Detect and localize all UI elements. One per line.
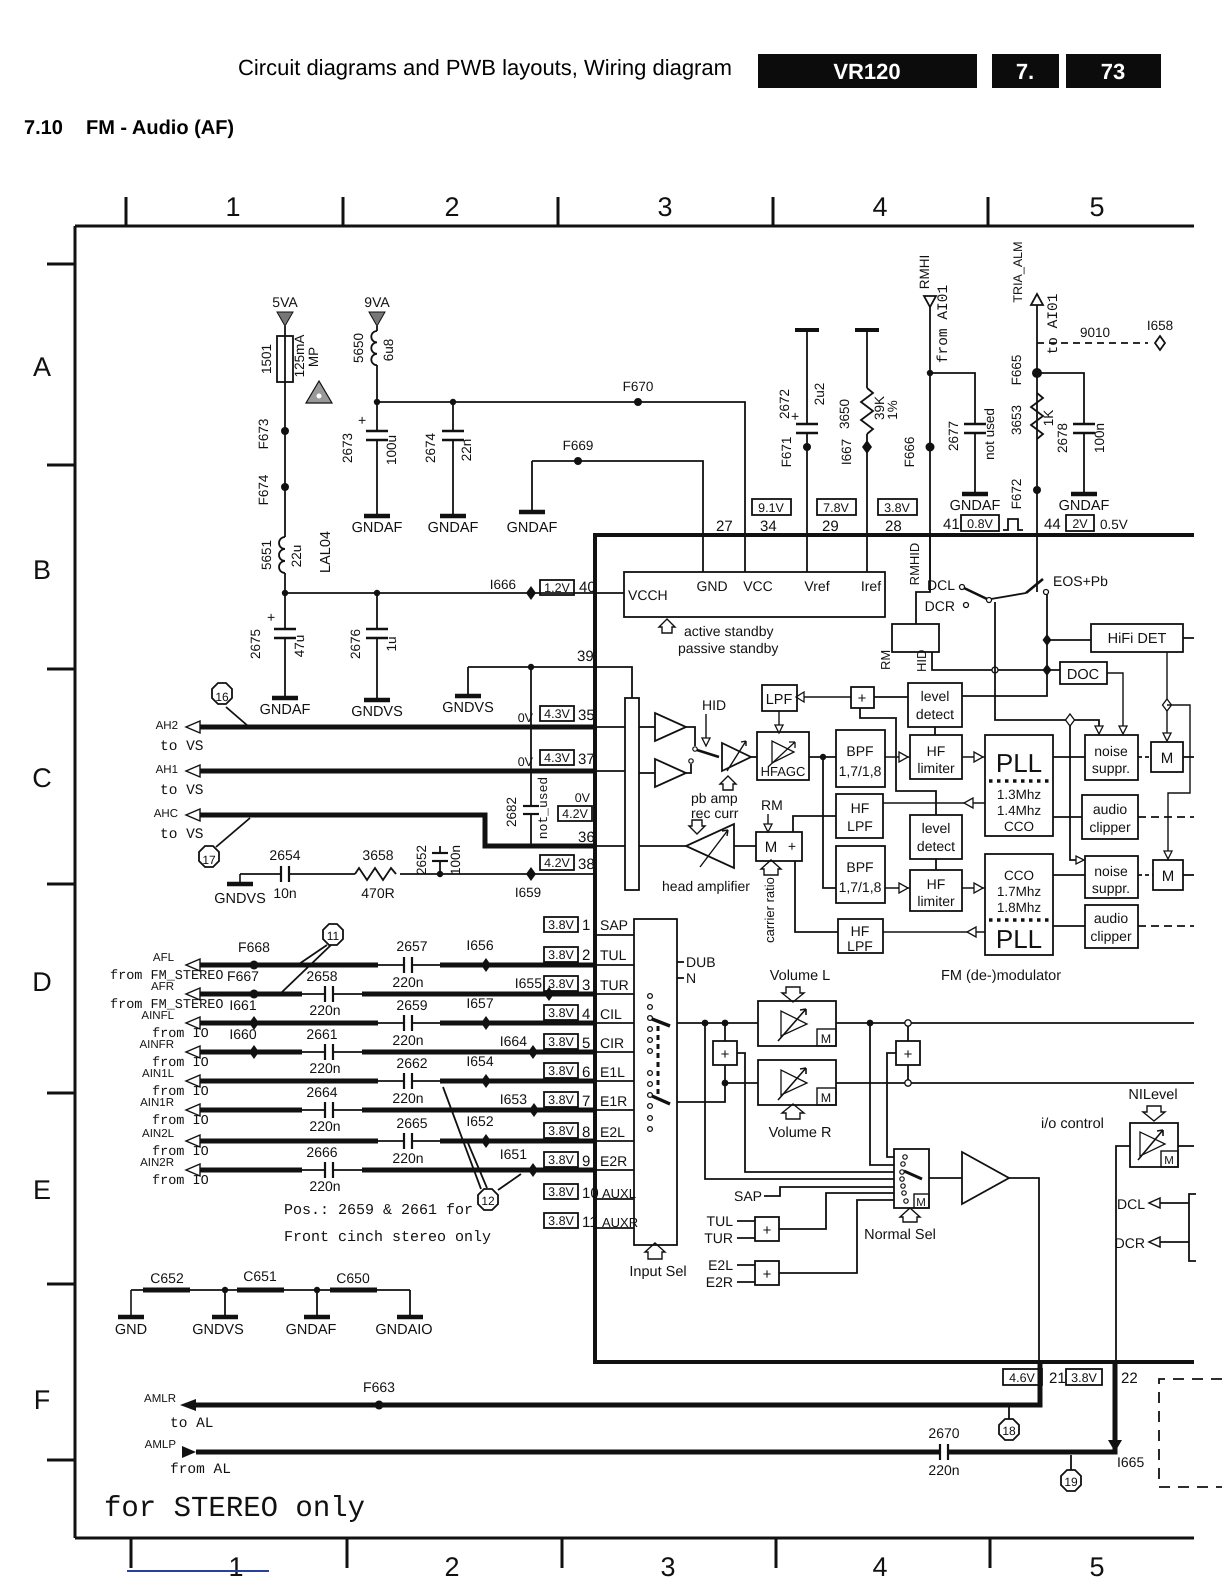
svg-text:3: 3: [582, 977, 590, 994]
pin 4 CIL: [544, 1005, 622, 1023]
block LPF: [762, 685, 797, 711]
wire noise suppr 1 to M 1: [1138, 756, 1151, 758]
test point I666 pin 40: [490, 577, 596, 600]
svg-text:TUR: TUR: [600, 977, 629, 993]
svg-text:34: 34: [760, 518, 777, 535]
voltage label 7.8V pin 29: [817, 499, 856, 535]
circle label 11: [281, 924, 343, 993]
svg-text:N: N: [686, 970, 696, 986]
test point F674: [256, 474, 289, 505]
svg-text:AMLP: AMLP: [145, 1439, 177, 1451]
adder left +: [713, 1023, 737, 1083]
svg-text:PLL: PLL: [996, 748, 1042, 778]
svg-text:2672: 2672: [777, 389, 792, 419]
wire tap down to BPF 2: [823, 757, 836, 888]
wire column to T2: [639, 772, 655, 774]
svg-text:470R: 470R: [361, 885, 394, 901]
svg-text:I660: I660: [229, 1026, 256, 1042]
block DOC: [1060, 662, 1127, 734]
block BPF 1: [836, 730, 885, 787]
svg-text:to AL: to AL: [170, 1416, 214, 1432]
wire plus to LPF with arrow: [804, 696, 851, 698]
capacitor 2659 220n: [392, 997, 427, 1048]
svg-text:4.2V: 4.2V: [562, 807, 588, 821]
bottom ruler line: [75, 1537, 1194, 1540]
svg-text:GNDAIO: GNDAIO: [375, 1322, 432, 1338]
svg-text:DCR: DCR: [1115, 1235, 1145, 1251]
svg-text:3658: 3658: [362, 847, 393, 863]
svg-text:3.8V: 3.8V: [548, 1185, 574, 1199]
net DCR: [1115, 1235, 1189, 1251]
node 9VA rail: [374, 399, 380, 405]
svg-text:4.6V: 4.6V: [1009, 1371, 1035, 1385]
wire AIN1R row: [200, 1108, 302, 1113]
wire F669 net to pin 27: [532, 461, 703, 572]
wire CIL row to Volume L: [677, 1022, 758, 1024]
wire PLL to HF LPF 1: [883, 802, 985, 804]
svg-text:LPF: LPF: [766, 692, 793, 708]
test point F672: [1009, 479, 1041, 510]
svg-text:2658: 2658: [306, 968, 337, 984]
svg-text:2666: 2666: [306, 1144, 337, 1160]
test point I654: [466, 1053, 493, 1088]
capacitor 2654 10n: [269, 847, 300, 901]
svg-text:37: 37: [578, 751, 595, 768]
svg-text:4.3V: 4.3V: [544, 751, 570, 765]
svg-text:RMHID: RMHID: [907, 543, 922, 586]
svg-text:11: 11: [327, 929, 340, 943]
wire PLL2 to HF LPF 2: [883, 931, 985, 933]
capacitor 2676 1u: [348, 590, 399, 700]
svg-text:+: +: [904, 1046, 913, 1063]
node CIL branch 2: [722, 1020, 729, 1027]
svg-text:3650: 3650: [837, 399, 852, 429]
svg-text:audio: audio: [1094, 910, 1128, 926]
svg-text:220n: 220n: [392, 974, 423, 990]
inductor 5651 22u: [259, 537, 304, 573]
svg-text:AINFL: AINFL: [141, 1010, 174, 1022]
svg-text:GNDAF: GNDAF: [428, 520, 479, 536]
svg-text:4.3V: 4.3V: [544, 707, 570, 721]
wire adder to level detect 2: [860, 708, 936, 815]
svg-text:I657: I657: [466, 995, 493, 1011]
svg-text:+: +: [721, 1046, 730, 1063]
fuse 1501 125mA MP: [259, 335, 321, 430]
svg-text:Circuit diagrams and PWB layou: Circuit diagrams and PWB layouts, Wiring…: [238, 55, 732, 80]
wire level detect to HF limiter 1: [934, 727, 936, 735]
svg-text:2V: 2V: [1072, 517, 1088, 531]
port AFR from FM_STEREO: [110, 981, 223, 1013]
capacitor 2682 not_used: [504, 667, 551, 846]
svg-text:limiter: limiter: [917, 760, 955, 776]
svg-text:2677: 2677: [946, 421, 961, 451]
svg-text:12: 12: [481, 1194, 495, 1208]
svg-text:1.8Mhz: 1.8Mhz: [997, 900, 1042, 915]
port AH1 to VS: [156, 764, 204, 799]
svg-text:73: 73: [1101, 59, 1125, 84]
wire to VCCH node: [284, 573, 286, 593]
junction to DOC: [1043, 664, 1052, 676]
adder TUL TUR: [704, 1193, 894, 1246]
wire AH2 pin 35: [200, 725, 595, 730]
svg-text:active standby: active standby: [684, 623, 774, 639]
svg-text:2673: 2673: [340, 433, 355, 463]
circle label 12: [443, 1087, 521, 1210]
svg-text:5: 5: [582, 1035, 590, 1052]
wire BPF2 to HF limiter 2: [885, 887, 910, 889]
wire AIN2R row: [200, 1168, 302, 1173]
pin 3 TUR: [544, 976, 629, 994]
svg-text:FM (de-)modulator: FM (de-)modulator: [941, 968, 1061, 984]
left frame line: [74, 226, 77, 1538]
svg-text:9VA: 9VA: [364, 294, 390, 310]
svg-text:40: 40: [579, 579, 596, 596]
note Pos.: 2659 & 2661: [284, 1202, 491, 1246]
svg-text:2u2: 2u2: [812, 383, 827, 406]
wire right adder to Normal Sel: [887, 1053, 896, 1157]
wire RM HID to DOC line: [932, 652, 1060, 670]
svg-text:220n: 220n: [309, 1002, 340, 1018]
svg-text:HID: HID: [914, 650, 929, 672]
port AMLP from AL: [145, 1439, 231, 1478]
wire left adder to Normal Sel: [737, 1053, 894, 1172]
svg-text:clipper: clipper: [1090, 928, 1132, 944]
svg-text:2682: 2682: [504, 797, 519, 827]
svg-text:2664: 2664: [306, 1084, 337, 1100]
ground GNDAF under 2678: [1059, 494, 1110, 514]
wire AINFR row: [200, 1050, 302, 1055]
svg-text:TRIA_ALM: TRIA_ALM: [1011, 241, 1025, 302]
svg-text:CCO: CCO: [1004, 868, 1034, 883]
svg-text:0V: 0V: [518, 755, 534, 769]
ground GNDAF under 2675: [260, 698, 311, 718]
svg-text:I651: I651: [500, 1146, 527, 1162]
svg-text:GNDVS: GNDVS: [351, 704, 403, 720]
svg-text:D: D: [32, 967, 52, 997]
labels pin 37: [518, 750, 595, 769]
test point F671: [779, 437, 811, 468]
svg-text:F670: F670: [623, 379, 654, 394]
wire AIN2L row: [200, 1139, 378, 1144]
wire PLL1 to noise suppr 1: [1053, 756, 1085, 758]
svg-text:1: 1: [225, 192, 240, 222]
svg-text:1: 1: [582, 917, 590, 934]
bracket DCL DCR: [1189, 1194, 1196, 1261]
column numbers top: [225, 192, 1104, 222]
svg-text:TUL: TUL: [600, 947, 627, 963]
svg-text:not used: not used: [982, 408, 997, 460]
svg-text:3.8V: 3.8V: [548, 1064, 574, 1078]
labels pin 36: [558, 791, 595, 846]
wire selector to R row: [677, 1083, 725, 1102]
wire HFAGC to BPF 1: [809, 756, 836, 758]
svg-text:I659: I659: [515, 885, 541, 900]
wire to Volume R: [725, 1082, 758, 1084]
svg-text:35: 35: [578, 707, 595, 724]
svg-text:CIL: CIL: [600, 1006, 622, 1022]
svg-text:3.8V: 3.8V: [884, 501, 910, 515]
circle label 16: [212, 683, 248, 726]
block NILevel: [1130, 1123, 1178, 1167]
wire AMLR to pin 21: [196, 1362, 1040, 1405]
wire L out down to Normal Sel: [870, 1023, 894, 1165]
svg-text:I664: I664: [500, 1033, 527, 1049]
svg-text:5651: 5651: [259, 540, 274, 570]
svg-text:Iref: Iref: [861, 578, 881, 594]
svg-text:9010: 9010: [1080, 325, 1110, 340]
net DCL: [1117, 1196, 1189, 1212]
node CIL branch 1: [702, 1020, 709, 1027]
ground GNDAF under 2677: [950, 494, 1001, 514]
test point F665: [1009, 355, 1042, 386]
svg-text:9.1V: 9.1V: [758, 501, 784, 515]
ground jumper bus: [131, 1289, 410, 1291]
header box VR120: [758, 54, 977, 88]
selector blade upper: [652, 1019, 670, 1026]
pin 6 E1L: [544, 1063, 625, 1081]
svg-text:to AI01: to AI01: [1046, 294, 1062, 355]
svg-text:220n: 220n: [309, 1118, 340, 1134]
svg-text:4.2V: 4.2V: [544, 856, 570, 870]
svg-text:3.8V: 3.8V: [1071, 1371, 1097, 1385]
svg-text:I667: I667: [839, 439, 854, 465]
svg-text:F674: F674: [256, 474, 271, 505]
pin 9 E2R: [544, 1152, 627, 1170]
svg-text:DUB: DUB: [686, 954, 716, 970]
svg-text:2665: 2665: [396, 1115, 427, 1131]
svg-text:suppr.: suppr.: [1092, 760, 1130, 776]
svg-text:VCC: VCC: [743, 578, 773, 594]
head amplifier triangle: [662, 824, 750, 894]
svg-text:A: A: [33, 352, 51, 382]
svg-text:19: 19: [1064, 1475, 1078, 1489]
wire BPF1 to HF limiter 1: [885, 756, 910, 758]
dashed connector box: [1159, 1379, 1222, 1487]
wire node to I666: [285, 592, 624, 594]
svg-text:17: 17: [202, 853, 216, 867]
svg-text:2662: 2662: [396, 1055, 427, 1071]
svg-text:EOS+Pb: EOS+Pb: [1053, 573, 1108, 589]
svg-text:8: 8: [582, 1124, 590, 1141]
test point F667: [227, 968, 259, 999]
svg-text:6u8: 6u8: [381, 339, 396, 362]
svg-text:RM: RM: [761, 797, 783, 813]
svg-text:head amplifier: head amplifier: [662, 878, 750, 894]
svg-text:carrier ratio: carrier ratio: [762, 877, 777, 943]
test point F666: [902, 437, 935, 468]
svg-text:1,7/1,8: 1,7/1,8: [839, 763, 882, 779]
capacitor 2658 220n: [306, 968, 340, 1018]
wire pin 39 net: [468, 667, 632, 698]
block HiFi DET: [1047, 624, 1194, 652]
wire head amp to M+: [734, 845, 756, 847]
resistor 3653 1K: [1009, 393, 1056, 439]
svg-text:TUL: TUL: [707, 1213, 734, 1229]
switch DCL DCR: [925, 577, 1026, 614]
test point F670: [623, 379, 654, 406]
svg-text:4: 4: [872, 192, 887, 222]
svg-text:to VS: to VS: [160, 827, 204, 843]
wire noise suppr 2 to M 2: [1138, 874, 1153, 876]
svg-text:audio: audio: [1093, 801, 1127, 817]
svg-text:10n: 10n: [273, 885, 296, 901]
test point I659 pin 38: [515, 855, 595, 900]
node for 2677: [927, 370, 933, 376]
block Volume R: [758, 1060, 836, 1105]
svg-text:i/o control: i/o control: [1041, 1116, 1104, 1132]
wire CCO2 to noise suppr 2: [1053, 874, 1085, 876]
wire adder to level detect: [874, 696, 908, 698]
voltage label 3.8V pin 22: [1066, 1369, 1138, 1387]
svg-text:7.: 7.: [1016, 59, 1034, 84]
svg-text:AIN1R: AIN1R: [140, 1097, 174, 1109]
node L out: [867, 1020, 874, 1027]
port AINFR from IO: [140, 1039, 209, 1071]
svg-text:39: 39: [577, 648, 594, 665]
svg-text:1: 1: [228, 1552, 243, 1582]
capacitor 2661 220n: [306, 1026, 340, 1076]
svg-text:HF: HF: [927, 743, 946, 759]
svg-text:E1L: E1L: [600, 1064, 625, 1080]
svg-text:BPF: BPF: [846, 859, 873, 875]
svg-text:220n: 220n: [392, 1150, 423, 1166]
svg-text:GNDAF: GNDAF: [950, 498, 1001, 514]
svg-text:47u: 47u: [292, 635, 307, 658]
test point I667: [839, 439, 872, 465]
wire NILevel right stub: [1178, 1145, 1194, 1147]
svg-text:0.5V: 0.5V: [1100, 517, 1128, 532]
svg-text:GNDVS: GNDVS: [214, 891, 266, 907]
svg-text:41: 41: [943, 516, 960, 533]
capacitor 2657 220n: [392, 938, 427, 990]
svg-text:M: M: [821, 1091, 831, 1105]
svg-text:HFAGC: HFAGC: [761, 764, 806, 779]
svg-text:2657: 2657: [396, 938, 427, 954]
capacitor 2652 100n: [414, 845, 463, 875]
svg-text:F669: F669: [563, 438, 594, 453]
svg-text:GNDAF: GNDAF: [286, 1322, 337, 1338]
wire Volume R output row: [836, 1082, 1194, 1084]
wire HiFi DET to M boxes: [1166, 652, 1168, 733]
capacitor 2674 22n: [423, 402, 474, 516]
pin 11 AUXR: [544, 1213, 638, 1231]
svg-text:16: 16: [215, 690, 229, 704]
warning triangle: [306, 381, 332, 403]
svg-text:AFL: AFL: [153, 952, 175, 964]
svg-text:F673: F673: [256, 419, 271, 450]
pin 5 CIR: [544, 1034, 624, 1052]
voltage label 9.1V pin 34: [716, 499, 791, 535]
labels pin 35: [518, 706, 595, 725]
arrow into noise suppr 1 top left: [1095, 726, 1103, 734]
svg-text:E2L: E2L: [600, 1124, 625, 1140]
wire 5VA rail: [284, 430, 286, 537]
svg-text:+: +: [267, 609, 275, 625]
node bus 2: [314, 1287, 320, 1293]
node BPF2 tap: [820, 754, 826, 760]
svg-text:E2R: E2R: [706, 1274, 733, 1290]
svg-text:F663: F663: [363, 1379, 395, 1395]
block HF limiter 1: [910, 735, 962, 779]
pb amp rec curr arrows: [689, 776, 739, 834]
svg-text:+: +: [358, 412, 366, 428]
pin 8 E2L: [544, 1123, 625, 1141]
svg-text:3653: 3653: [1009, 405, 1024, 435]
svg-text:DOC: DOC: [1067, 667, 1099, 683]
svg-text:MP: MP: [306, 347, 321, 367]
svg-text:29: 29: [822, 518, 839, 535]
ground GNDAF under F669 wire: [507, 461, 558, 536]
svg-text:GNDVS: GNDVS: [192, 1322, 244, 1338]
svg-text:LAL04: LAL04: [318, 531, 334, 573]
junction diamond on HiFi M line: [1163, 699, 1172, 711]
svg-text:C652: C652: [150, 1270, 184, 1286]
svg-text:125mA: 125mA: [292, 335, 307, 378]
block PLL 1: [985, 735, 1053, 836]
block HF LPF 1: [836, 794, 883, 838]
svg-text:220n: 220n: [392, 1090, 423, 1106]
test point F663: [363, 1379, 395, 1410]
svg-text:3.8V: 3.8V: [548, 977, 574, 991]
svg-text:2678: 2678: [1055, 423, 1070, 453]
svg-text:I658: I658: [1147, 318, 1173, 333]
svg-text:9: 9: [582, 1153, 590, 1170]
test point F668: [238, 939, 270, 970]
svg-text:I665: I665: [1117, 1454, 1144, 1470]
ground GNDAIO: [375, 1290, 432, 1338]
svg-text:38: 38: [578, 856, 595, 873]
svg-text:3.8V: 3.8V: [548, 1035, 574, 1049]
svg-text:LPF: LPF: [847, 818, 873, 834]
test point I658: [1147, 318, 1173, 350]
svg-text:PLL: PLL: [996, 924, 1042, 954]
svg-text:0V: 0V: [575, 791, 591, 805]
node 2682 tap: [528, 664, 534, 670]
node for 2674: [450, 399, 456, 405]
IC main outline: [595, 535, 1194, 1362]
port AIN1L from IO: [142, 1068, 209, 1100]
svg-text:Volume R: Volume R: [769, 1125, 832, 1141]
svg-text:Front cinch stereo only: Front cinch stereo only: [284, 1229, 491, 1246]
junction circle R row: [905, 1080, 911, 1086]
block level detect 2: [910, 815, 962, 870]
wire M+ to HF LPF 1: [793, 816, 836, 832]
svg-text:F671: F671: [779, 437, 794, 468]
svg-text:2: 2: [444, 192, 459, 222]
test point I660: [229, 1026, 259, 1059]
supply 5VA: [272, 294, 298, 336]
test point I653: [500, 1091, 539, 1117]
label HID with arrow: [702, 697, 726, 746]
svg-text:1.2V: 1.2V: [544, 581, 570, 595]
wire AINFL row: [200, 1021, 378, 1026]
svg-text:CIR: CIR: [600, 1035, 624, 1051]
crossing circle on DCL line: [992, 667, 998, 673]
svg-text:5650: 5650: [351, 333, 366, 363]
ground GNDVS on pin39 wire: [442, 667, 494, 716]
buffer triangle 1: [655, 713, 686, 741]
svg-text:from AL: from AL: [170, 1462, 231, 1478]
svg-text:3.8V: 3.8V: [548, 1214, 574, 1228]
test point F673: [256, 419, 289, 450]
svg-text:E2R: E2R: [600, 1153, 627, 1169]
block HF limiter 2: [910, 870, 962, 911]
svg-text:+: +: [763, 1222, 772, 1239]
capacitor 2677 not used: [930, 373, 997, 494]
wire NILevel output to pin 22: [1116, 1146, 1130, 1362]
wire T1 to switch: [686, 727, 695, 746]
pin 7 E1R: [544, 1092, 627, 1110]
